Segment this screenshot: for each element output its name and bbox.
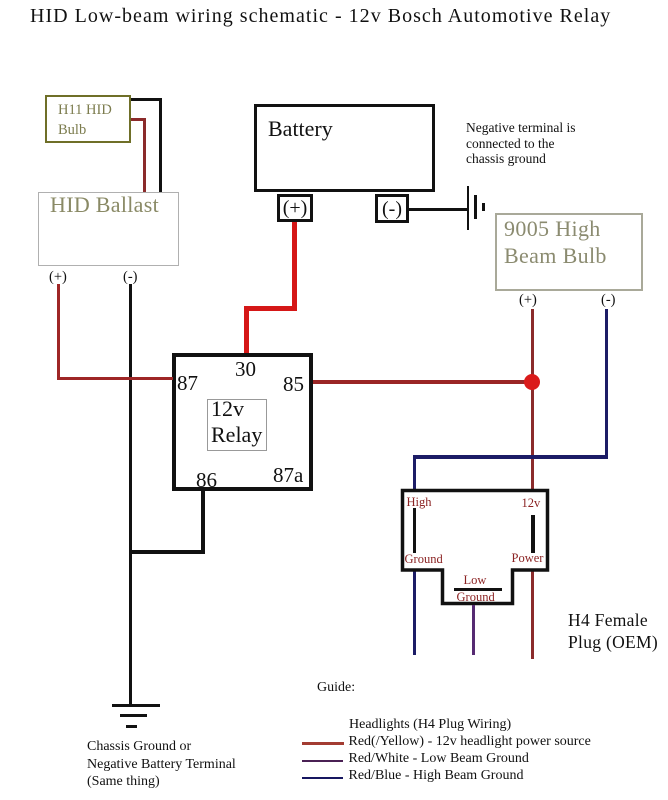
wire relay 86 horizontal to ground wire <box>130 550 205 554</box>
legend navy line <box>349 768 524 784</box>
9005 label <box>504 215 607 269</box>
H4 female plug caption <box>568 610 658 653</box>
negative terminal note <box>466 120 575 167</box>
chassis ground caption <box>87 738 236 791</box>
relay inner label <box>211 396 262 447</box>
wire H11 red vertical <box>143 118 146 192</box>
relay box <box>172 353 313 491</box>
wire battery - to chassis ground symbol <box>409 208 467 211</box>
wire relay 85 to junction <box>313 380 533 384</box>
wire relay 86 vertical <box>201 491 205 553</box>
legend headlights line <box>349 717 511 733</box>
ballast (+) label <box>49 269 67 286</box>
wire H11 red horizontal <box>131 118 146 121</box>
ballast (-) label <box>123 269 138 286</box>
wire navy vertical down to plug top <box>413 455 417 489</box>
relay inner box <box>207 399 267 451</box>
wire battery + red horizontal <box>244 306 298 311</box>
HID Ballast label <box>50 192 159 218</box>
plug label Ground left <box>405 552 443 567</box>
plug pin center bar <box>454 588 503 592</box>
relay pin 85 label <box>283 372 304 397</box>
wire purple low beam ground <box>472 605 476 655</box>
plug label 12v <box>522 496 541 511</box>
plug label Power <box>512 551 544 566</box>
wire 9005 - navy vertical <box>605 309 609 459</box>
wire ballast + red vertical <box>57 284 61 380</box>
relay pin 30 label <box>235 357 256 382</box>
wire H11 black vertical <box>159 98 162 193</box>
9005 high beam bulb box <box>495 213 643 291</box>
wire navy horizontal <box>413 455 609 459</box>
junction dot <box>524 374 540 390</box>
ground symbol long bar <box>467 186 470 231</box>
plug label Ground center <box>457 590 495 605</box>
H4 plug outline <box>395 483 560 613</box>
relay pin 86 label <box>196 468 217 493</box>
ground symbol small bar <box>482 203 485 211</box>
plug label Low <box>464 573 487 588</box>
wire battery + red vertical into pin 30 <box>244 306 249 354</box>
battery box <box>254 104 435 192</box>
plug label High <box>407 495 432 510</box>
HID Ballast box <box>38 192 179 266</box>
wire ballast - black vertical to ground <box>129 284 133 705</box>
battery (-) terminal box <box>375 194 409 223</box>
chassis ground bar3 <box>126 725 137 728</box>
wire battery + red vertical <box>292 222 297 311</box>
legend red swatch <box>302 742 344 745</box>
plug pin right <box>531 515 535 553</box>
relay pin 87 label <box>177 371 198 396</box>
wire ballast + red horizontal to 87 <box>57 377 173 381</box>
title <box>30 5 611 28</box>
plug pin left <box>413 508 416 553</box>
H11 HID bulb label <box>58 100 112 140</box>
9005 (-) label <box>601 292 616 309</box>
wire dark red below plug to wire end <box>531 571 535 659</box>
legend purple line <box>349 751 529 767</box>
chassis ground bar2 <box>120 714 147 717</box>
wire H11 black horizontal <box>131 98 162 101</box>
wire 9005 + dark red vertical down to plug top <box>531 309 535 490</box>
relay pin 87a label <box>273 463 303 488</box>
legend red line <box>349 734 591 750</box>
guide caption <box>317 680 355 696</box>
legend purple swatch <box>302 760 343 763</box>
chassis ground bar1 <box>112 704 160 707</box>
9005 (+) label <box>519 292 537 309</box>
wire navy below plug to wire end <box>413 571 417 655</box>
battery label <box>268 116 333 142</box>
ground symbol medium bar <box>474 195 477 219</box>
legend navy swatch <box>302 777 343 780</box>
battery (+) terminal box <box>277 194 313 222</box>
H11 HID bulb box <box>45 95 131 143</box>
